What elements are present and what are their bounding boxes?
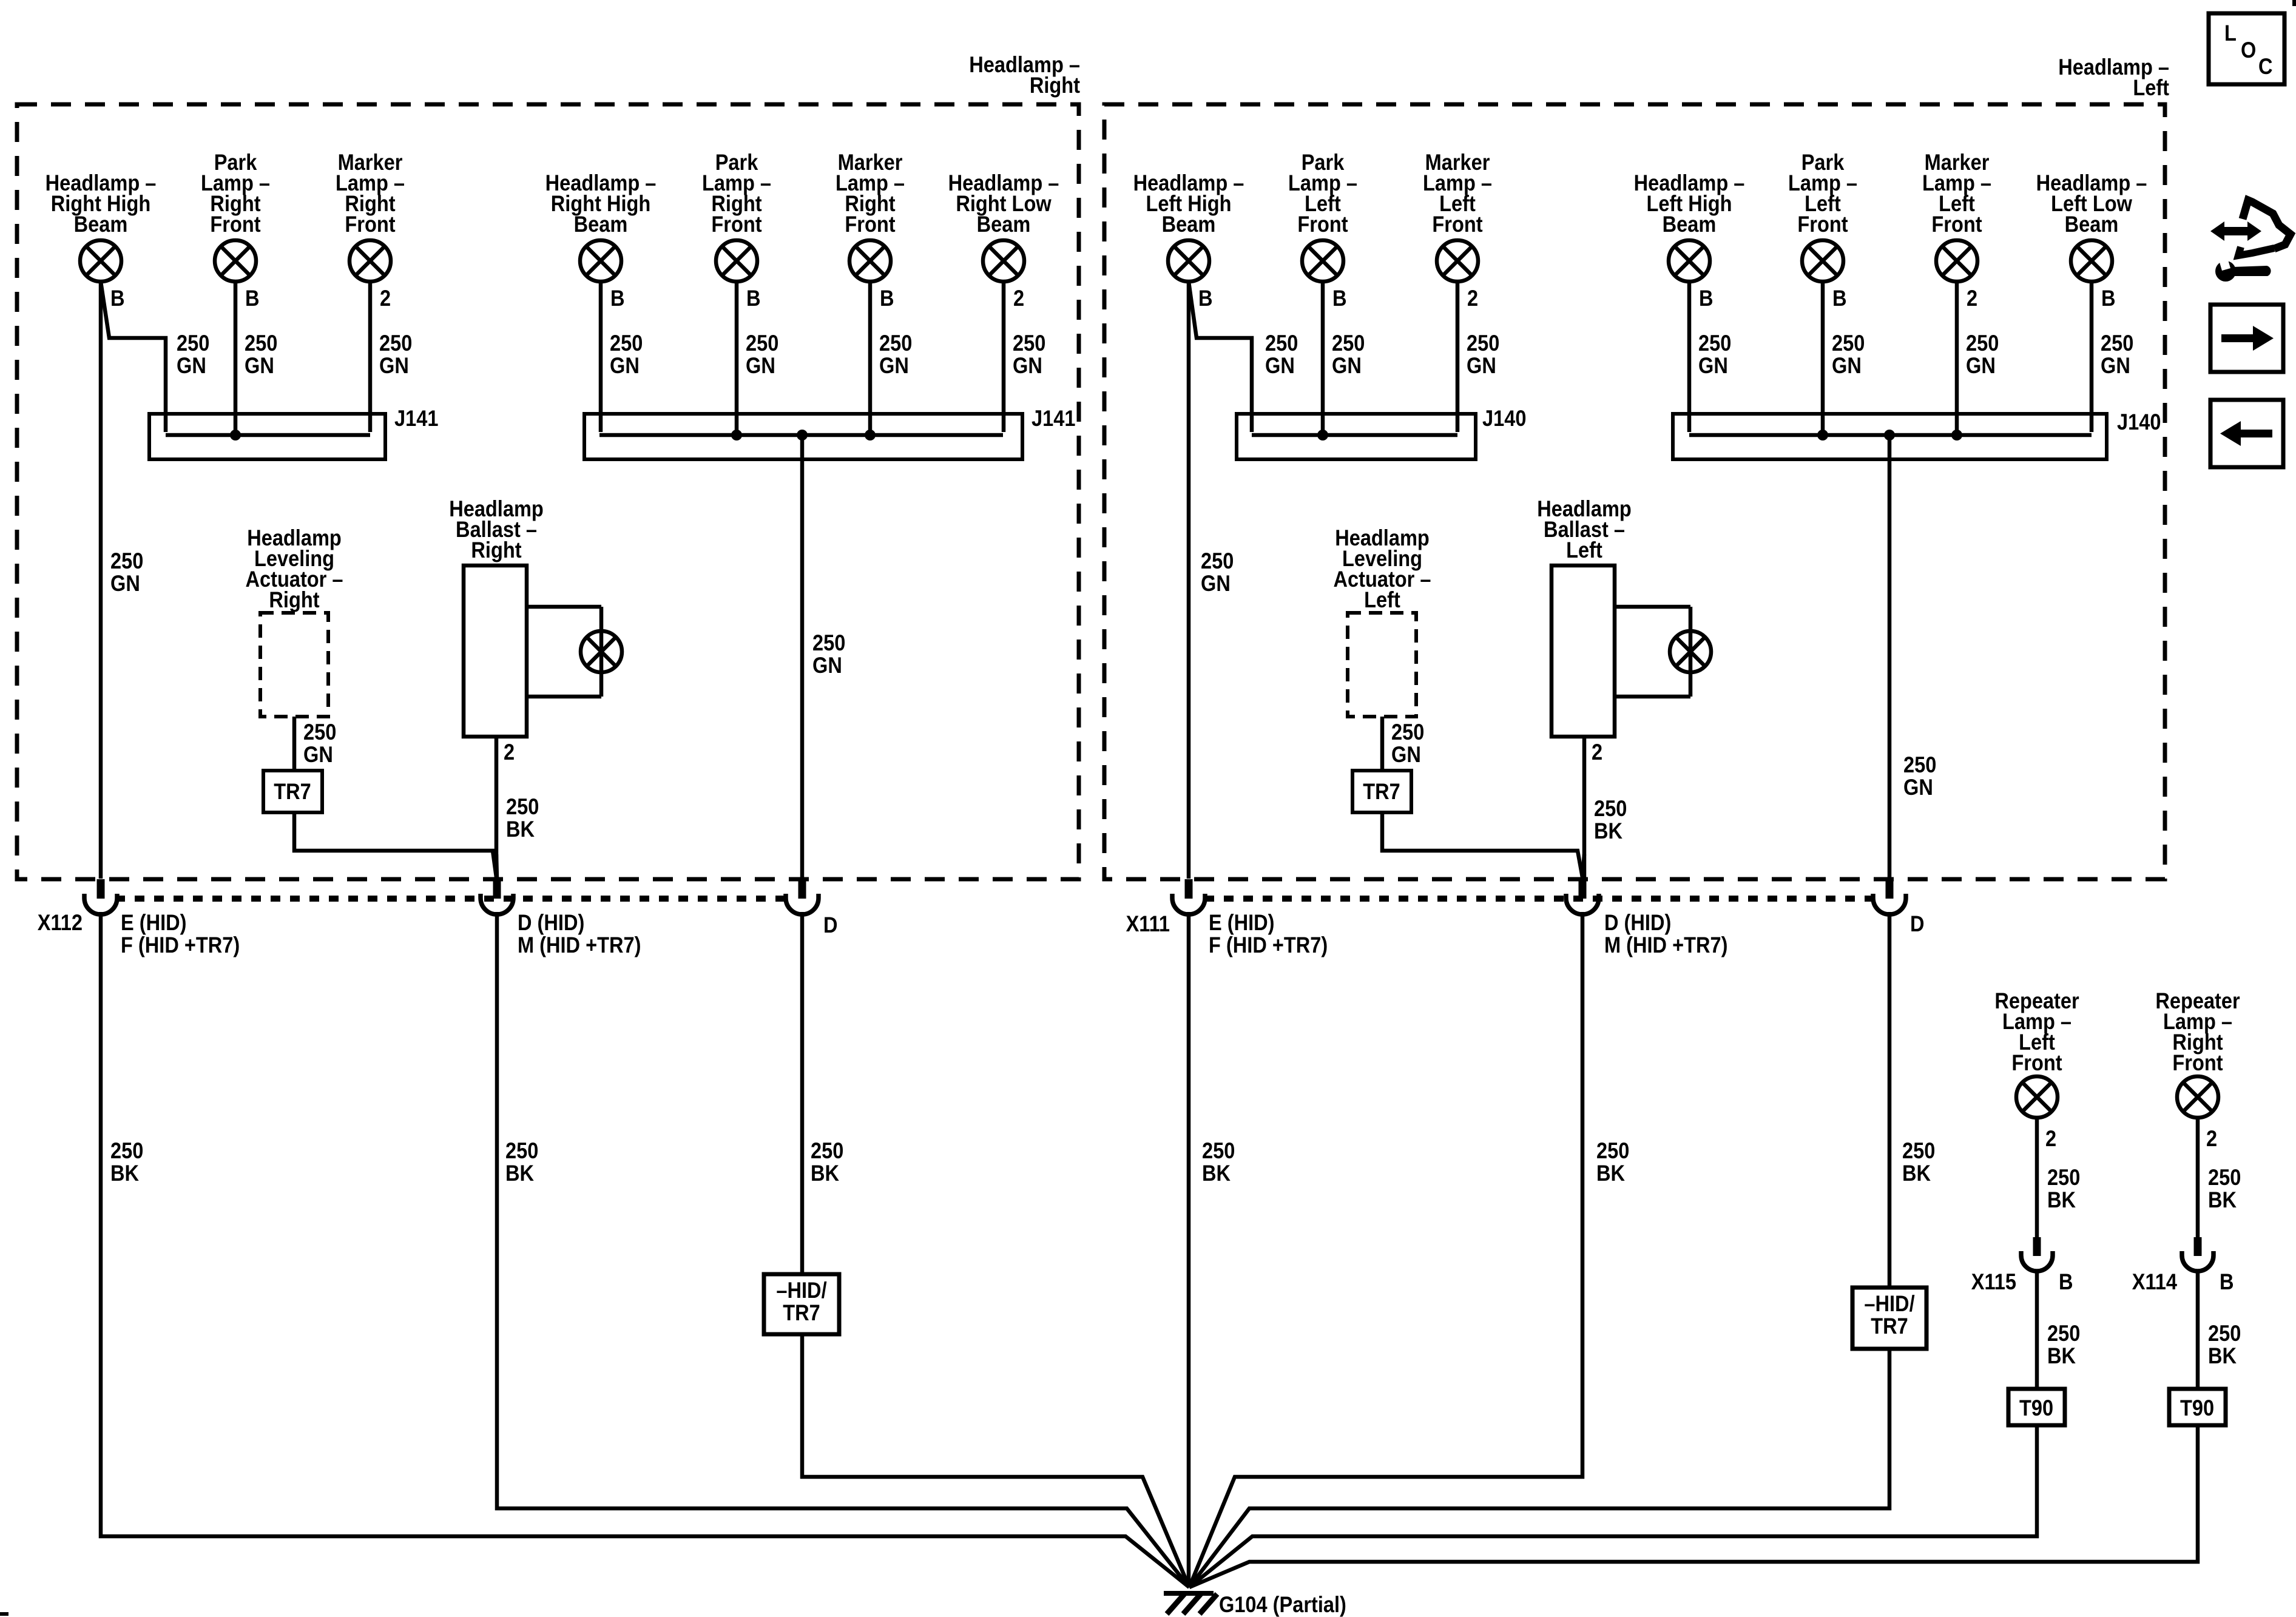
svg-text:F (HID +TR7): F (HID +TR7) [1209,933,1328,957]
junction dot park (group4) [1817,430,1828,441]
svg-text:Front: Front [1797,212,1848,237]
svg-text:2: 2 [1967,286,1977,311]
wire park lamp left front to J140 [1321,282,1325,432]
svg-text:B: B [1332,286,1347,311]
junction dot park lamp (group1) [230,430,241,441]
svg-text:GN: GN [1332,353,1362,378]
svg-text:250: 250 [506,794,539,819]
svg-text:250: 250 [1698,331,1731,356]
component headlamp ballast - left [1551,565,1615,737]
wire headlamp left high beam to X111-E (250 GN) [1187,282,1191,879]
junction dot marker (group2) [865,430,876,441]
svg-text:GN: GN [1832,353,1862,378]
svg-text:G104 (Partial): G104 (Partial) [1219,1592,1346,1617]
option box TR7 (left) [1352,771,1411,812]
svg-text:B: B [880,286,894,311]
junction dot park lamp (group3) [1317,430,1328,441]
wire actuator-left to TR7 [1380,717,1385,771]
wire repeater left to X115 (250 BK) [2035,1118,2039,1238]
svg-text:X112: X112 [38,910,83,935]
svg-text:GN: GN [1698,353,1728,378]
page corner tick top-right [2292,0,2296,6]
wire marker lamp left front down to J140 (group4) [1955,282,1959,432]
junction block J140 (group3) [1237,414,1476,459]
wire ballast-right lamp stub [527,607,601,697]
svg-text:GN: GN [1013,353,1042,378]
wire actuator-right to TR7 [292,717,297,771]
ground G104 (Partial) [1164,1593,1217,1614]
svg-text:250: 250 [245,331,277,356]
option box -HID/TR7 (left) [1852,1288,1926,1349]
wire D-left to -HID/TR7 box (250 BK) [1888,912,1892,1288]
svg-text:Left: Left [1364,587,1400,612]
svg-text:B: B [2101,286,2116,311]
svg-text:Front: Front [845,212,896,237]
wire ballast-left lamp stub [1615,607,1690,697]
wire headlamp left low beam down to J140 (group4) [2090,282,2094,432]
component headlamp ballast - right [464,565,527,737]
svg-text:Front: Front [210,212,261,237]
wire high-beam branch jog to J140 bus [1189,282,1252,432]
svg-text:B: B [1198,286,1213,311]
svg-text:250: 250 [303,720,336,744]
svg-text:250: 250 [1467,331,1499,356]
option box -HID/TR7 (right) [764,1274,839,1334]
wire D-right to -HID/TR7 box then G104 (250 BK) [800,912,805,1274]
svg-text:Front: Front [1432,212,1483,237]
wire X111-D to G104 (250 BK) [1189,912,1582,1587]
wire X112-E to G104 (250 BK) [101,912,1189,1587]
svg-text:GN: GN [177,353,206,378]
svg-text:B: B [245,286,260,311]
icon arrow-right box [2210,305,2283,372]
junction block J141 (group1) [149,414,385,459]
lamp headlamp left low beam (group4) [2071,240,2112,282]
svg-text:B: B [2220,1269,2234,1294]
svg-text:250: 250 [1594,796,1627,821]
svg-text:250: 250 [746,331,778,356]
svg-text:2: 2 [2206,1126,2217,1151]
svg-text:GN: GN [110,571,140,596]
svg-text:250: 250 [1013,331,1045,356]
wire X112-D to G104 (250 BK) [497,912,1189,1587]
svg-text:D (HID): D (HID) [1604,910,1671,935]
svg-text:J140: J140 [2117,410,2161,434]
wire TR7-right joining ballast wire [294,812,496,877]
svg-text:GN: GN [1966,353,1996,378]
svg-text:BK: BK [2208,1187,2237,1212]
enclosure Headlamp - Right (dashed box) [17,104,1079,879]
lamp headlamp right low beam (group2) [983,240,1024,282]
lamp marker lamp left front (group3) [1437,240,1478,282]
svg-text:GN: GN [1201,571,1231,596]
option box T90 (right) [2169,1389,2226,1425]
bus bar inside J140 (group4) [1689,433,2092,437]
svg-text:B: B [110,286,125,311]
svg-text:B: B [746,286,761,311]
svg-text:BK: BK [2047,1343,2076,1368]
lamp headlamp right high beam (group2) [580,240,621,282]
page corner tick bottom-left [0,1612,8,1616]
svg-text:BK: BK [2047,1187,2076,1212]
svg-text:Front: Front [2011,1050,2062,1075]
svg-text:TR7: TR7 [274,779,311,804]
svg-text:TR7: TR7 [1871,1314,1908,1338]
svg-text:250: 250 [2208,1165,2241,1190]
wire repeater right to X114 (250 BK) [2196,1118,2200,1238]
option box T90 (left) [2008,1389,2065,1425]
svg-text:–HID/: –HID/ [776,1278,827,1303]
svg-text:Right: Right [471,538,522,562]
svg-text:D: D [1910,911,1925,936]
bus bar inside J141 (group1) [166,433,370,437]
connector X112 pin E [84,879,117,914]
svg-text:Beam: Beam [1663,212,1717,237]
svg-text:250: 250 [110,1138,143,1163]
svg-text:250: 250 [1332,331,1365,356]
connector X111 pin D [1566,879,1599,914]
lamp inside ballast - left [1670,631,1711,672]
svg-text:250: 250 [1202,1138,1235,1163]
svg-text:GN: GN [746,353,775,378]
svg-text:L: L [2224,21,2237,46]
connector X114 [2182,1237,2213,1271]
svg-text:TR7: TR7 [783,1300,820,1325]
svg-text:B: B [1832,286,1847,311]
svg-text:Right: Right [1030,73,1081,98]
svg-text:Front: Front [711,212,762,237]
svg-text:BK: BK [1202,1161,1231,1186]
svg-text:F (HID +TR7): F (HID +TR7) [121,933,240,957]
component headlamp leveling actuator - right (dashed) [260,613,328,717]
svg-text:J141: J141 [394,406,438,431]
svg-text:D: D [823,913,838,937]
svg-text:Front: Front [345,212,396,237]
svg-text:J140: J140 [1482,406,1526,431]
svg-text:250: 250 [811,1138,843,1163]
connector X111 pin E [1172,879,1205,914]
svg-text:Front: Front [1931,212,1982,237]
svg-text:GN: GN [1265,353,1295,378]
wire marker lamp left front to J140 [1456,282,1460,432]
wire ballast-left to X111-D (250 BK) [1582,737,1587,880]
lamp repeater lamp - left front [2016,1076,2058,1118]
svg-text:TR7: TR7 [1363,779,1400,804]
svg-text:Left: Left [1566,538,1602,562]
wire headlamp left high beam down to J140 (group4) [1687,282,1692,432]
lamp headlamp right high beam (group1) [80,240,121,282]
svg-text:BK: BK [811,1161,839,1186]
wire -HID/TR7 right to G104 [802,1334,1189,1587]
svg-text:GN: GN [879,353,909,378]
svg-text:2: 2 [1467,286,1478,311]
lamp repeater lamp - right front [2177,1076,2218,1118]
wire X114 to T90 (250 BK) [2196,1271,2200,1389]
svg-text:250: 250 [2208,1321,2241,1346]
svg-text:250: 250 [1596,1138,1629,1163]
svg-text:BK: BK [110,1161,139,1186]
wire marker lamp right front to J141 [368,282,373,432]
svg-text:250: 250 [1966,331,1999,356]
inline-harness dotted line (X112 row) [115,896,786,902]
wire ballast-right to X112-D (250 BK) [495,737,499,880]
svg-text:2: 2 [380,286,391,311]
svg-text:B: B [2059,1269,2073,1294]
connector X112 pin D [481,879,513,914]
wire park lamp right front to J141 [234,282,238,432]
svg-text:250: 250 [879,331,912,356]
svg-text:2: 2 [504,740,515,765]
wire J141 output D down to connector (250 GN) [800,435,805,879]
junction dot output (group4) [1884,430,1895,441]
svg-text:250: 250 [2047,1321,2080,1346]
wire X111-E straight to G104 (250 BK) [1187,912,1191,1587]
junction block J140 (group4) [1673,414,2107,459]
svg-text:M (HID +TR7): M (HID +TR7) [518,933,641,957]
lamp headlamp left high beam (group4) [1669,240,1710,282]
lamp headlamp left high beam (group3) [1168,240,1209,282]
lamp park lamp left front (group3) [1302,240,1343,282]
svg-text:GN: GN [245,353,274,378]
svg-text:B: B [1699,286,1714,311]
svg-text:250: 250 [379,331,412,356]
svg-text:250: 250 [1391,720,1424,744]
connector D (left harness) [1873,879,1906,914]
svg-text:B: B [610,286,625,311]
svg-text:–HID/: –HID/ [1864,1291,1915,1316]
svg-text:250: 250 [1832,331,1865,356]
svg-text:BK: BK [1596,1161,1625,1186]
lamp marker lamp right front (group2) [849,240,891,282]
wire -HID/TR7 left to G104 [1189,1349,1889,1587]
svg-text:250: 250 [2047,1165,2080,1190]
enclosure Headlamp - Left (dashed box) [1104,104,2165,879]
svg-text:J141: J141 [1032,406,1075,431]
wire J140 output D down to connector (250 GN) [1888,435,1892,879]
svg-text:2: 2 [2045,1126,2056,1151]
svg-text:O: O [2241,38,2256,62]
svg-text:Left: Left [2133,75,2169,100]
lamp park lamp right front (group1) [215,240,256,282]
svg-text:250: 250 [505,1138,538,1163]
svg-text:Beam: Beam [1162,212,1216,237]
lamp inside ballast - right [581,631,622,672]
svg-text:250: 250 [812,630,845,655]
connector X115 [2021,1237,2053,1271]
wire headlamp right low beam down to J141 (group2) [1002,282,1006,432]
lamp marker lamp right front (group1) [349,240,391,282]
svg-text:Front: Front [1297,212,1348,237]
svg-text:2: 2 [1013,286,1024,311]
svg-text:BK: BK [2208,1343,2237,1368]
svg-text:BK: BK [1902,1161,1931,1186]
svg-text:Beam: Beam [574,212,628,237]
svg-text:2: 2 [1592,740,1602,765]
svg-text:T90: T90 [2019,1396,2053,1420]
svg-text:GN: GN [2101,353,2130,378]
svg-text:250: 250 [110,549,143,573]
component headlamp leveling actuator - left (dashed) [1348,613,1416,717]
wire park lamp left front down to J140 (group4) [1821,282,1825,432]
lamp park lamp right front (group2) [716,240,757,282]
inline-harness dotted line (X111 row) [1204,896,1875,902]
wire headlamp right high beam down to J141 (group2) [599,282,603,432]
bus bar inside J140 (group3) [1252,433,1457,437]
icon arrow-left box [2210,400,2283,467]
svg-text:250: 250 [1201,549,1234,573]
svg-text:Front: Front [2172,1050,2223,1075]
svg-text:GN: GN [1391,742,1421,767]
svg-text:Right: Right [269,587,320,612]
svg-text:GN: GN [379,353,409,378]
svg-text:250: 250 [1903,752,1936,777]
svg-text:GN: GN [812,653,842,678]
icon LOC box [2209,13,2284,84]
svg-text:T90: T90 [2180,1396,2214,1420]
svg-text:E (HID): E (HID) [1209,910,1275,935]
svg-text:E (HID): E (HID) [121,910,187,935]
svg-text:Beam: Beam [74,212,128,237]
junction dot marker (group4) [1951,430,1962,441]
lamp marker lamp left front (group4) [1936,240,1977,282]
svg-text:X114: X114 [2132,1269,2178,1294]
wire headlamp right high beam to X112-E (250 GN) [99,282,103,879]
svg-text:Beam: Beam [2065,212,2119,237]
svg-text:BK: BK [505,1161,534,1186]
svg-text:GN: GN [303,742,333,767]
svg-text:250: 250 [1265,331,1298,356]
svg-text:GN: GN [610,353,640,378]
icon wrench with double arrow (service icon) [2210,200,2291,282]
wire T90 left to G104 [1189,1425,2037,1587]
svg-text:Beam: Beam [977,212,1031,237]
svg-text:BK: BK [1594,819,1622,843]
svg-text:250: 250 [1902,1138,1935,1163]
wire X115 to T90 (250 BK) [2035,1271,2039,1389]
svg-text:X111: X111 [1126,911,1170,936]
option box TR7 (right) [263,771,322,812]
svg-text:250: 250 [177,331,209,356]
svg-text:250: 250 [2101,331,2133,356]
svg-text:X115: X115 [1971,1269,2016,1294]
lamp park lamp left front (group4) [1802,240,1843,282]
junction dot output (group2) [797,430,808,441]
connector D (right harness) [786,879,819,914]
svg-text:GN: GN [1467,353,1496,378]
svg-text:C: C [2258,54,2273,79]
wire marker lamp right front down to J141 (group2) [868,282,873,432]
wire high-beam branch jog to J141 bus [101,282,166,432]
junction dot park (group2) [731,430,742,441]
wire park lamp right front down to J141 (group2) [735,282,739,432]
wire TR7-left joining ballast wire [1382,812,1582,877]
svg-text:D (HID): D (HID) [518,910,584,935]
bus bar inside J141 (group2) [599,433,1003,437]
junction block J141 (group2) [584,414,1022,459]
svg-text:BK: BK [506,817,535,842]
svg-text:250: 250 [610,331,643,356]
wire T90 right to G104 [1189,1425,2198,1587]
svg-text:GN: GN [1903,775,1933,800]
svg-text:M (HID +TR7): M (HID +TR7) [1604,933,1727,957]
